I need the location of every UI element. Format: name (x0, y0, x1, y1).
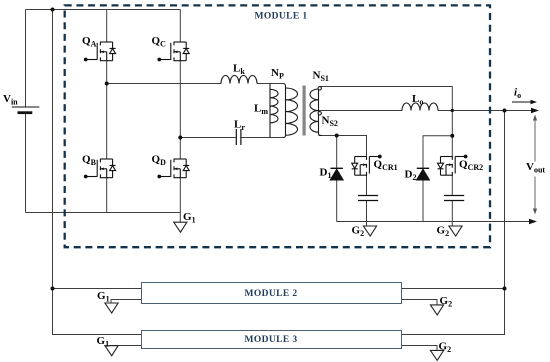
svg-text:MODULE 3: MODULE 3 (244, 335, 297, 345)
svg-text:MODULE 2: MODULE 2 (244, 289, 297, 299)
svg-text:MODULE 1: MODULE 1 (254, 12, 307, 22)
